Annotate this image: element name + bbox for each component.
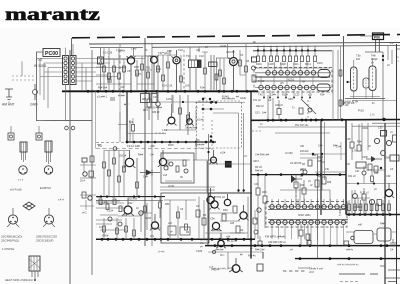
dashes y131: [252, 130, 262, 132]
wire y158 x300: [300, 157, 322, 159]
svg-text:R##: R##: [327, 182, 332, 184]
resistor col x220: [219, 58, 221, 91]
resistor col5 upper-left: [123, 60, 125, 92]
svg-text:C#: C#: [150, 153, 154, 157]
comp box x140 y93: [141, 94, 150, 103]
wire y200 left: [96, 199, 163, 201]
svg-text:R##: R##: [138, 153, 144, 157]
resistor col x168: [167, 55, 169, 91]
svg-text:R#4: R#4: [165, 203, 170, 206]
wire heavy bus y214 right: [346, 214, 400, 216]
wire rail y59.5: [100, 59, 128, 61]
svg-text:x# 0#: x# 0#: [168, 185, 175, 188]
svg-text:R4#: R4#: [300, 184, 305, 187]
cap x305 y172: [303, 170, 307, 174]
wire y126 right: [352, 125, 400, 127]
resistor col x158: [157, 55, 159, 91]
diode D201: [140, 172, 160, 174]
svg-text:R3#: R3#: [357, 141, 362, 144]
svg-text:C2##: C2##: [270, 94, 276, 97]
dot y183: [357, 182, 359, 184]
box bottom x258: [257, 264, 263, 271]
col x230 extra: [227, 44, 229, 58]
lower mid board outline: [208, 161, 252, 245]
svg-text:FM MPX x##x#x: FM MPX x##x#x: [265, 234, 286, 238]
trans Q305: [385, 189, 392, 196]
svg-text:W 300Ω: W 300Ω: [34, 64, 47, 68]
bottom right extra seg: [380, 266, 400, 270]
marks y104 x124: [124, 103, 130, 105]
vert x322 mid: [321, 154, 323, 190]
comp boxes row y56: [257, 56, 317, 62]
wire bus y196: [96, 196, 165, 198]
svg-text:x# C##: x# C##: [285, 152, 293, 155]
wire y252 mid: [208, 251, 263, 253]
svg-text:D201: D201: [317, 62, 323, 65]
svg-text:x# ##x: x# ##x: [158, 252, 166, 254]
svg-text:x#x#x: x#x#x: [240, 97, 247, 100]
svg-text:75Ω: 75Ω: [36, 58, 43, 62]
arrow junction: [291, 175, 296, 183]
small circles x67 y128: [65, 126, 69, 130]
svg-text:P01 FM x#x: P01 FM x#x: [295, 124, 309, 127]
wire y123 right: [372, 122, 400, 124]
IC2 row chain lines: [268, 207, 347, 222]
wire y102 mid: [150, 101, 215, 103]
svg-text:x0#: x0#: [346, 163, 351, 166]
wire vert bus x70: [69, 50, 71, 284]
wire top bus 3: [90, 46, 400, 48]
box right mid: [356, 162, 366, 168]
junction circle y148: [113, 147, 117, 151]
IC2 dashed box: [266, 202, 347, 228]
svg-text:x## #x ##x#x## #x: x## #x ##x#x## #x: [337, 263, 359, 267]
package case E: [29, 256, 40, 271]
svg-text:HEAT SINK 2SD313-F: HEAT SINK 2SD313-F: [5, 278, 33, 282]
svg-text:x##: x##: [230, 222, 235, 225]
diagonal wire: [301, 99, 316, 114]
wire heavy bus y91: [62, 90, 258, 92]
capacitor C05: [107, 80, 112, 82]
rail ticks y50: [257, 49, 316, 51]
dashed vert x296: [295, 183, 297, 205]
IC1 body: [255, 76, 330, 78]
svg-text:C4#: C4#: [292, 178, 297, 181]
svg-text:Tx0#8x: Tx0#8x: [116, 49, 126, 53]
trans Q301: [211, 201, 218, 208]
svg-text:C8: C8: [127, 69, 131, 73]
svg-text:C## R## C## x#: C## R## C## x#: [268, 241, 286, 244]
svg-text:'01: '01: [97, 144, 102, 148]
svg-text:R##: R##: [380, 223, 385, 226]
package diamond C: [23, 202, 35, 210]
extra parts y110 x268: [268, 95, 273, 120]
res bottom row2: [116, 218, 118, 239]
svg-text:"C#y*: "C#y*: [130, 47, 138, 51]
svg-text:C1#: C1#: [178, 49, 183, 52]
wires connector right: [76, 59, 145, 82]
wires from frame x145: [145, 56, 158, 108]
wire heavy bus y258 right: [295, 258, 400, 260]
svg-text:C##: C##: [288, 98, 293, 101]
wire vert frame x152: [151, 44, 153, 246]
svg-text:R21: R21: [143, 108, 148, 112]
svg-text:01-C06: 01-C06: [103, 51, 113, 55]
svg-text:x## x#x 1#x: x## x#x 1#x: [342, 102, 356, 105]
svg-text:R14 2.2K: R14 2.2K: [162, 85, 173, 88]
res x324 y172: [322, 177, 326, 184]
cap C21: [110, 98, 115, 100]
svg-text:x# 0#: x# 0#: [220, 45, 227, 48]
vert x120 low: [119, 112, 121, 142]
svg-text:T.#2: T.#2: [258, 94, 263, 97]
vert dashes x120: [119, 44, 121, 91]
svg-text:x.#..#: x.#..#: [58, 200, 64, 202]
parts right low: [377, 200, 382, 206]
svg-text:0#L: 0#L: [150, 235, 155, 238]
res bottom row4: [133, 218, 135, 239]
strip top stubs: [66, 44, 74, 56]
wire dashed left links: [12, 76, 36, 80]
trans Q302: [224, 199, 230, 205]
resistor col x163: [162, 55, 164, 91]
svg-text:x# 2: x# 2: [82, 212, 87, 215]
right lower parts: [351, 236, 355, 240]
wire y172 right: [315, 171, 345, 173]
trans Q206: [207, 196, 214, 203]
upper mid extra col: [133, 48, 135, 56]
IC2 bottom pin row: [270, 220, 346, 224]
extra right low parts: [353, 194, 358, 199]
res col x216b: [216, 58, 218, 91]
trans Q104b: [187, 119, 193, 125]
resistor L2 col2: [108, 151, 110, 197]
wire P00 left: [360, 35, 373, 37]
transistor Q102: [151, 56, 158, 63]
IF transformer T1: [189, 60, 198, 68]
svg-text:C##: C##: [143, 175, 148, 179]
svg-text:R05: R05: [134, 65, 139, 69]
svg-text:1.7s: 1.7s: [370, 114, 375, 117]
svg-text:R214: R214: [305, 63, 311, 66]
svg-text:C4#: C4#: [254, 183, 259, 186]
pinout circle D: [44, 215, 53, 224]
svg-text:R3#: R3#: [374, 172, 379, 175]
svg-text:C3#: C3#: [346, 138, 351, 141]
parts below IC2 x300: [299, 230, 303, 236]
right lower board box B: [377, 228, 391, 241]
right mid extra parts: [362, 171, 366, 175]
osc box dots: [202, 98, 204, 100]
svg-text:#x#: #x#: [356, 58, 361, 61]
trans Q203: [124, 206, 132, 214]
svg-text:2SC#: 2SC#: [119, 154, 126, 158]
res x310 y160: [308, 160, 312, 166]
svg-text:JE #: JE #: [80, 180, 85, 183]
svg-text:TP01 x#: TP01 x#: [215, 195, 225, 199]
lower sub box: [161, 193, 209, 243]
svg-text:IC02 x##x: IC02 x##x: [298, 213, 311, 217]
resistor col4 upper-left: [118, 48, 120, 91]
dot x127 y142: [126, 141, 129, 144]
svg-text:R30#: R30#: [362, 127, 368, 130]
IC1 row chain lines: [255, 73, 331, 88]
res bottom row1: [103, 218, 105, 239]
extra sub box parts: [184, 169, 188, 173]
svg-text:x##: x##: [300, 145, 305, 148]
svg-text:R4#: R4#: [262, 191, 267, 194]
extra cols upper mid: [190, 47, 208, 56]
wire vert x385 lower: [384, 123, 386, 284]
rail y51: [253, 50, 332, 52]
dots x238 y190: [237, 189, 239, 191]
lower left extra res: [144, 206, 147, 212]
parts right mid 2: [381, 151, 386, 156]
lower left board fill wires: [96, 201, 140, 230]
svg-text:R## #x: R## #x: [248, 255, 256, 258]
svg-text:R## x#: R## x#: [255, 170, 263, 173]
svg-text:C# x#y3#x#: C# x#y3#x#: [185, 128, 198, 130]
wire right top mesh: [348, 52, 384, 119]
wire y98 right: [345, 98, 385, 100]
svg-text:C03: C03: [255, 112, 260, 115]
junction dots bus y258: [299, 257, 383, 260]
svg-text:x0) #x: x0) #x: [197, 119, 205, 122]
svg-text:C4# R4# x##: C4# R4# x##: [255, 154, 270, 157]
parts lower mid: [233, 206, 237, 213]
wire vert right edge: [396, 44, 398, 284]
verts L2 right: [199, 160, 207, 239]
svg-text:x## #: x## #: [253, 160, 260, 163]
trans Q300 top: [211, 157, 217, 163]
wire mesh below: [118, 110, 196, 130]
svg-text:x8#: x8#: [150, 144, 155, 148]
svg-text:SR0#: SR0#: [102, 235, 109, 238]
svg-text:2SC945(P)(Q): 2SC945(P)(Q): [1, 239, 19, 243]
extra bottom mid boxes: [168, 226, 176, 235]
verts x238 x244: [213, 113, 244, 193]
vert x341 y142: [340, 142, 342, 160]
svg-text:R1##: R1##: [145, 217, 152, 220]
trans Q304: [240, 212, 247, 219]
IC1 tick wires a: [268, 62, 314, 71]
component box x210: [209, 62, 215, 67]
IC2 pin wires top: [272, 199, 344, 205]
resistor col2 upper-left: [108, 48, 110, 91]
package case B: [45, 141, 52, 152]
resistor col x246: [245, 44, 247, 91]
resistor below x180: [179, 95, 181, 130]
lower left board fill parts: [99, 199, 102, 205]
svg-text:R22#: R22#: [282, 94, 288, 97]
wire dashed y148: [96, 148, 211, 150]
res bottom row3: [125, 218, 127, 239]
wire y268 seg: [298, 267, 310, 269]
wire corner x263: [262, 252, 264, 259]
left cluster B: [82, 192, 86, 198]
dashes y271 mid: [283, 270, 305, 272]
wire heavy bus y120: [251, 119, 400, 122]
svg-text:x10#: x10#: [220, 152, 226, 155]
osc box interior extra: [211, 120, 213, 150]
svg-text:e c b: e c b: [18, 179, 24, 182]
IC1 dashed box: [254, 68, 332, 93]
verts x333: [333, 50, 338, 120]
svg-text:C30: C30: [378, 127, 383, 130]
trans Q205 small: [139, 211, 143, 215]
resistor col x137: [136, 60, 138, 91]
junction dots bus y91: [87, 90, 249, 93]
svg-text:R##: R##: [333, 145, 338, 148]
svg-text:P.00: P.00: [358, 109, 364, 113]
svg-text:-08): -08): [195, 139, 200, 142]
svg-text:C16: C16: [199, 54, 204, 58]
extra wires y84: [96, 83, 154, 85]
junction dots bus y214: [348, 213, 392, 216]
corner dot bus x384: [382, 118, 385, 121]
dark cluster y170: [368, 164, 372, 170]
coil shape C: [363, 78, 369, 88]
svg-text:08#: 08#: [142, 98, 147, 101]
left col IC2 parts2: [253, 218, 257, 224]
svg-text:R## ##: R## ##: [152, 112, 160, 114]
wire y183 right: [347, 183, 396, 185]
resistor col x148: [147, 56, 149, 91]
osc board box: [197, 101, 242, 148]
junction dots bus y245: [214, 244, 389, 247]
dashed vert x308: [307, 100, 309, 120]
sub box parts: [164, 166, 168, 170]
upper sub box: [161, 153, 194, 183]
svg-text:C23: C23: [295, 94, 300, 97]
coil shape B: [369, 66, 376, 91]
wire x228 vert bottom: [228, 252, 232, 268]
board outline PC00: [37, 52, 93, 121]
IC1 right cap shape: [318, 70, 330, 78]
dashes y133 mid: [155, 132, 166, 134]
svg-text:x## #x: x## #x: [346, 249, 354, 252]
pinout circle C: [8, 215, 17, 224]
svg-text:R## C##: R## C##: [255, 249, 265, 252]
cluster x300 y108: [299, 108, 303, 114]
extra wires above IC2: [280, 183, 330, 207]
svg-text:x31: x31: [308, 94, 313, 97]
wire vert frame x71: [71, 38, 73, 56]
junction dots y196: [100, 195, 156, 197]
svg-text:xN-FxxB: xN-FxxB: [10, 188, 22, 192]
wire top dashed bus: [72, 35, 400, 38]
svg-text:AM ANT: AM ANT: [2, 103, 15, 107]
svg-text:1##: 1##: [262, 112, 267, 115]
junction dots bus y120: [267, 118, 344, 121]
svg-text:R31 x#: R31 x#: [348, 175, 356, 178]
connector strip J1: [63, 56, 69, 85]
extra lowboard wires: [164, 200, 196, 238]
IF left parts: [252, 57, 257, 62]
verts right mid: [362, 123, 368, 160]
wire y127: [258, 126, 345, 128]
trans Q204: [151, 222, 158, 229]
junction dots y142: [133, 141, 215, 144]
svg-text:#x#-#x#: #x#-#x#: [300, 150, 309, 153]
svg-text:2SD313(E)(F): 2SD313(E)(F): [36, 239, 53, 243]
antenna symbol: [5, 89, 13, 102]
IC2 pin wires bottom2: [279, 225, 344, 246]
IF transformer T1 core: [198, 60, 202, 68]
svg-text:R1#: R1#: [167, 50, 172, 53]
resistor col x224: [223, 58, 225, 91]
wire heavy bus y239 left: [96, 238, 255, 240]
IF bottom dots: [263, 97, 311, 99]
left cluster A2: [83, 172, 87, 176]
svg-text:x#x: x#x: [196, 48, 201, 52]
dark junction box: [226, 162, 232, 168]
junction dots bus y239: [101, 238, 253, 241]
res x133 y124: [132, 125, 135, 132]
svg-text:C12#: C12#: [107, 210, 114, 213]
lower board edge up: [208, 134, 210, 161]
dashed vert x203: [202, 100, 204, 130]
wire y100 right2: [352, 100, 396, 102]
wire rail y55 mid2: [158, 54, 176, 56]
svg-text:C3#: C3#: [210, 218, 215, 221]
IC2 top pin row: [270, 205, 346, 209]
extra wires below IC2: [272, 225, 337, 246]
wire mesh L2: [96, 203, 161, 232]
svg-text:C#: C#: [153, 95, 157, 99]
wire top bus 2: [89, 43, 400, 45]
svg-text:##x ###x/#x: ##x ###x/#x: [222, 98, 236, 101]
svg-text:PC00: PC00: [45, 51, 58, 57]
svg-text:C#L: C#L: [129, 122, 134, 124]
line y274: [339, 273, 378, 275]
IC1 top pin row: [266, 71, 316, 75]
pinout circle B: [44, 166, 52, 174]
svg-text:marantz: marantz: [5, 4, 100, 24]
wire y233 mid: [205, 232, 245, 234]
extra parts bus245: [258, 241, 262, 245]
wire rail y58 r: [216, 57, 230, 59]
svg-text:1K: 1K: [136, 207, 139, 210]
resistor col x142: [141, 56, 143, 91]
trans Q303: [212, 222, 219, 229]
extra verts mid x196: [195, 142, 197, 160]
parts above bus245 right: [344, 241, 349, 245]
IC2 body: [268, 210, 348, 220]
crystal X1: [98, 57, 104, 64]
svg-text:C1##: C1##: [196, 249, 203, 253]
res x340 upper: [340, 46, 342, 120]
svg-text:x#x#x##: x#x#x##: [195, 144, 205, 147]
resistor col3 upper-left: [113, 60, 115, 92]
svg-text:x1#: x1#: [163, 174, 168, 177]
svg-text:C.L.E.C#: C.L.E.C#: [227, 240, 237, 243]
vert x95 y91: [95, 91, 97, 148]
resistor L2 col3: [113, 151, 115, 197]
vert x120 ext: [119, 91, 121, 130]
svg-text:T01 x#: T01 x#: [253, 99, 261, 102]
wire bottom pc00: [44, 84, 92, 121]
resistor L2 col4: [118, 151, 120, 197]
svg-text:R11: R11: [146, 66, 151, 70]
resistor below x188: [187, 95, 189, 135]
transistor Q201: [125, 158, 133, 166]
wire vert x378 from P00: [376, 39, 380, 52]
svg-text:P00: P00: [374, 35, 380, 39]
comp box x151 y93: [151, 94, 157, 103]
vert x324: [324, 122, 326, 180]
wire heavy vert x346: [345, 120, 347, 215]
